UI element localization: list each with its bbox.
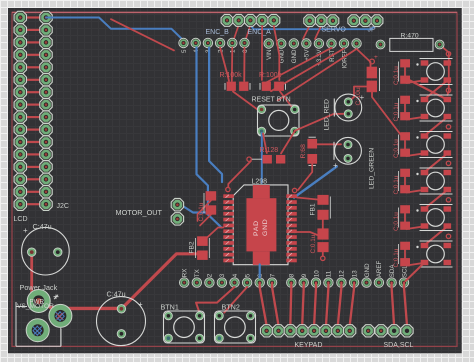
red trace button #4 to next bbox=[425, 190, 448, 209]
pin row 5,4,3,2,1,0 bbox=[179, 38, 249, 53]
IC L298 bbox=[233, 179, 288, 265]
svg-text:8: 8 bbox=[289, 273, 296, 277]
LED_RED bbox=[324, 93, 365, 131]
svg-text:R:470: R:470 bbox=[401, 33, 419, 40]
red trace via to L298 bbox=[228, 161, 251, 188]
svg-text:ENC_B: ENC_B bbox=[206, 29, 230, 36]
header JP 3-pin bbox=[348, 15, 383, 27]
red trace pin5 to BTN2 bbox=[224, 287, 247, 313]
capacitor C:0.1u #3 right column bbox=[393, 132, 410, 158]
via above button #1 bbox=[446, 52, 450, 56]
svg-text:AREF: AREF bbox=[376, 260, 383, 277]
svg-text:C:0.1u: C:0.1u bbox=[393, 139, 400, 158]
svg-text:5: 5 bbox=[244, 273, 251, 277]
red traces L298 to FB1 bbox=[297, 198, 317, 200]
header KEYPAD 8-pin bbox=[261, 325, 356, 337]
button #4 right column bbox=[416, 168, 452, 194]
svg-text:KEYPAD: KEYPAD bbox=[295, 342, 323, 349]
bottom pin row RX..SCL bbox=[180, 260, 409, 287]
ferrite FB1 bbox=[310, 195, 331, 220]
capacitor C:0.1u #6 right column bbox=[393, 242, 410, 268]
svg-text:ENC_A: ENC_A bbox=[248, 29, 272, 36]
red trace cap to button #6 bbox=[407, 263, 422, 265]
blue trace reset to L298 tab bbox=[261, 133, 263, 183]
svg-text:GND: GND bbox=[364, 263, 371, 277]
keypad trace links bbox=[260, 283, 267, 326]
button #1 right column bbox=[416, 59, 452, 85]
header SDA,SCL 4-pin bbox=[362, 325, 413, 337]
red stubs SERVO/JP to power pins bbox=[303, 26, 310, 40]
red diagonal bundle to RST/IOREF pads bbox=[266, 48, 331, 83]
capacitor C:10u bbox=[355, 54, 380, 106]
via above button #2 bbox=[446, 88, 450, 92]
resistor R:470 bbox=[376, 33, 444, 52]
header SERVO 3-pin bbox=[304, 15, 339, 27]
red trace diagonal top-left bbox=[111, 19, 174, 50]
red trace reset BR to LED_RED bbox=[295, 114, 345, 131]
red trace C10u to button1 cap bbox=[372, 92, 401, 134]
red trace C0.1u down to via bbox=[322, 252, 324, 256]
red trace reset BL to R128 bbox=[263, 134, 267, 154]
svg-text:BTN2: BTN2 bbox=[222, 303, 240, 312]
svg-text:JP: JP bbox=[368, 27, 377, 34]
svg-text:FB1: FB1 bbox=[310, 203, 317, 215]
svg-text:7: 7 bbox=[269, 273, 276, 277]
svg-text:SERVO: SERVO bbox=[322, 27, 347, 34]
svg-text:9: 9 bbox=[301, 273, 308, 277]
red trace button #1 to next bbox=[425, 81, 448, 100]
svg-text:C:0.1u: C:0.1u bbox=[393, 248, 400, 267]
thick trace power jack to C47u2 bbox=[42, 299, 121, 308]
svg-text:GND: GND bbox=[262, 218, 269, 236]
button #2 right column bbox=[416, 95, 452, 121]
button BTN2 bbox=[215, 303, 256, 344]
via above button #6 bbox=[446, 234, 450, 238]
svg-text:C:0.1u: C:0.1u bbox=[393, 175, 400, 194]
red traces R100k to reset button bbox=[233, 92, 262, 110]
red trace button6 down to SCL bbox=[406, 263, 425, 282]
svg-text:C:10u: C:10u bbox=[355, 87, 362, 105]
header LCD/J2C double-row 16x2 bbox=[14, 11, 52, 210]
svg-text:R:100k: R:100k bbox=[220, 72, 243, 79]
svg-text:LCD: LCD bbox=[14, 216, 28, 223]
via above button #5 bbox=[446, 198, 450, 202]
svg-text:C:0.1u: C:0.1u bbox=[310, 234, 317, 253]
svg-text:C:47u: C:47u bbox=[33, 222, 52, 231]
svg-text:+: + bbox=[333, 161, 338, 170]
red trace R470 to button column bbox=[440, 45, 449, 95]
pin row VIN..IOREF bbox=[264, 39, 361, 69]
svg-text:LED_GREEN: LED_GREEN bbox=[369, 148, 376, 189]
resistor R:68 bbox=[300, 137, 317, 165]
capacitor C:47u #1 bbox=[22, 222, 70, 275]
red trace pin2 to R100k bbox=[220, 48, 229, 82]
svg-text:RX: RX bbox=[182, 269, 189, 278]
button RESET BTN bbox=[252, 97, 300, 137]
button BTN1 bbox=[161, 303, 205, 344]
svg-text:GND: GND bbox=[291, 49, 298, 63]
red trace FB2 to L298 bbox=[206, 228, 223, 239]
capacitor C:0.1u (left of L298) bbox=[198, 191, 216, 221]
red trace R68 down to L298 bbox=[298, 160, 312, 190]
header MOTOR_OUT 2-pin bbox=[171, 199, 183, 226]
red trace cap to button #5 bbox=[407, 227, 422, 229]
blue trace pin6 to L298 bbox=[259, 265, 261, 278]
L298 left pin pads bbox=[223, 194, 234, 262]
red trace button #5 to next bbox=[425, 227, 448, 246]
svg-text:MOTOR_OUT: MOTOR_OUT bbox=[116, 208, 163, 217]
blue trace L298 to LED_GREEN bbox=[294, 167, 337, 198]
svg-text:C:47u: C:47u bbox=[107, 290, 126, 299]
blue trace pin3 down to L298 bbox=[209, 48, 222, 183]
red trace R128 to reset BR bbox=[281, 131, 295, 153]
svg-text:RESET BTN: RESET BTN bbox=[252, 97, 291, 104]
L298 right pin pads bbox=[286, 194, 297, 262]
via above button #4 bbox=[446, 161, 450, 165]
via right of L298 bbox=[292, 188, 296, 192]
svg-text:10: 10 bbox=[313, 270, 320, 277]
red trace C47u1 down to power jack bbox=[32, 254, 38, 301]
svg-text:3: 3 bbox=[219, 273, 226, 277]
svg-text:+: + bbox=[138, 300, 143, 309]
thick trace FB2 to C47u bbox=[121, 254, 197, 309]
svg-text:SDA,SCL: SDA,SCL bbox=[384, 342, 414, 349]
svg-text:LED_RED: LED_RED bbox=[324, 99, 331, 130]
svg-text:BTN1: BTN1 bbox=[161, 303, 179, 312]
red trace button #3 to next bbox=[425, 154, 448, 173]
svg-text:13: 13 bbox=[351, 270, 358, 277]
button #5 right column bbox=[416, 205, 452, 231]
capacitor C:0.1u #5 right column bbox=[393, 205, 410, 231]
svg-text:PAD: PAD bbox=[253, 220, 260, 236]
blue trace LCD to pin5 bbox=[46, 18, 184, 41]
via left of L298 bbox=[226, 187, 230, 191]
red traces to R100k#2 bbox=[261, 26, 263, 80]
red trace cap to button #1 bbox=[407, 81, 422, 83]
red trace R68 to LED_GREEN bbox=[317, 143, 341, 145]
svg-text:TX: TX bbox=[194, 269, 201, 277]
svg-text:FB2: FB2 bbox=[189, 241, 196, 253]
button #6 right column bbox=[416, 241, 452, 267]
red trace pin0 to R100k bbox=[243, 48, 245, 82]
capacitor C:0.1u #4 right column bbox=[393, 169, 410, 195]
svg-text:C:0.1u: C:0.1u bbox=[393, 212, 400, 231]
blue trace under SERVO/JP bbox=[250, 25, 377, 29]
resistor R:100k #1 bbox=[220, 72, 251, 91]
red trace pin1 to R100k bbox=[231, 48, 234, 82]
red diagonals from C0.1u left bbox=[198, 201, 212, 222]
sda/scl trace links bbox=[392, 283, 395, 326]
svg-text:Power Jack: Power Jack bbox=[20, 283, 58, 292]
red trace cap to button #2 bbox=[407, 117, 422, 119]
resistor R:100k #2 bbox=[259, 72, 286, 91]
red link FB1 to C0.1u bbox=[322, 216, 324, 232]
capacitor C:47u #2 bbox=[97, 290, 146, 346]
red trace C10u to LED_RED bbox=[348, 87, 372, 103]
svg-text:R:68: R:68 bbox=[300, 144, 307, 159]
blue trace motor out bbox=[184, 207, 208, 213]
capacitor C:0.1u #2 right column bbox=[393, 96, 410, 122]
svg-text:J2C: J2C bbox=[57, 203, 69, 210]
red trace cap to button #3 bbox=[407, 154, 422, 156]
svg-text:R:128: R:128 bbox=[260, 147, 279, 154]
power jack bbox=[16, 283, 72, 346]
LED_GREEN bbox=[333, 137, 376, 189]
svg-text:SCL: SCL bbox=[401, 265, 408, 278]
svg-text:L298: L298 bbox=[252, 179, 268, 186]
button #3 right column bbox=[416, 132, 452, 158]
via above button #3 bbox=[446, 125, 450, 129]
svg-text:C:0.1u: C:0.1u bbox=[393, 102, 400, 121]
svg-text:11: 11 bbox=[326, 270, 333, 277]
red trace button #2 to next bbox=[425, 117, 448, 136]
capacitor C:0.1u #1 right column bbox=[393, 59, 410, 85]
ferrite FB2 bbox=[189, 236, 210, 260]
svg-text:PWR: PWR bbox=[30, 299, 45, 306]
red trace cap to button #4 bbox=[407, 190, 422, 192]
svg-text:5: 5 bbox=[181, 49, 188, 53]
red stubs ENC header bbox=[233, 25, 239, 41]
resistor R:128 bbox=[247, 147, 285, 164]
svg-text:C:0.1u: C:0.1u bbox=[393, 66, 400, 85]
svg-text:+: + bbox=[374, 54, 378, 61]
red trace pin4 to BTN1 bbox=[196, 287, 235, 313]
red diag to button1 bbox=[410, 81, 447, 100]
top edge power trace bbox=[12, 11, 457, 13]
svg-text:VIN: VIN bbox=[266, 50, 273, 60]
blue trace pin4 down to L298 bbox=[197, 48, 222, 228]
capacitor C:0.1u (right of L298) bbox=[310, 228, 329, 253]
svg-text:12: 12 bbox=[339, 270, 346, 277]
svg-text:C:0.1u: C:0.1u bbox=[198, 202, 205, 221]
svg-text:+: + bbox=[23, 226, 28, 235]
svg-text:2: 2 bbox=[207, 273, 214, 277]
header ENC_B/ENC_A 5-pin bbox=[221, 14, 280, 26]
svg-text:4: 4 bbox=[232, 273, 239, 277]
